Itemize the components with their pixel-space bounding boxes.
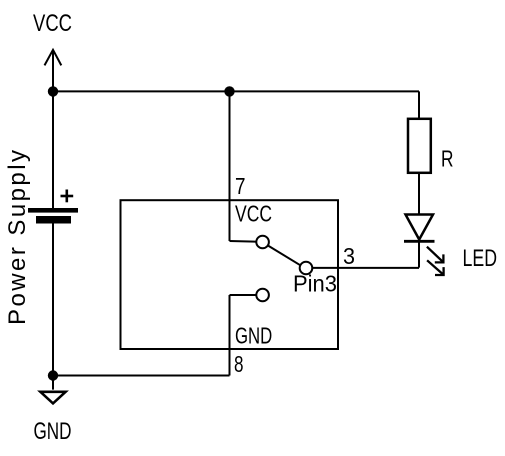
switch contact circle (Pin3 pole) [300, 262, 313, 275]
svg-text:R: R [441, 146, 454, 172]
wire to switch VCC pole [230, 240, 257, 243]
IC U1 box [121, 200, 339, 349]
wire top right corner down to resistor [418, 91, 420, 119]
switch contact circle (GND pole) [256, 289, 269, 302]
resistor R body [408, 119, 431, 173]
battery positive plate [28, 208, 78, 213]
switch blade [268, 246, 300, 266]
ground symbol [40, 392, 65, 404]
wire VCC rail horizontal [53, 90, 419, 92]
LED triangle [406, 215, 434, 240]
junction dot (pin 7 tap) [224, 86, 234, 96]
wire battery bottom lead [52, 224, 54, 390]
LED emission arrow 2 [427, 260, 444, 275]
power VCC arrow [45, 50, 62, 92]
switch contact circle (VCC pole) [256, 236, 269, 249]
svg-text:8: 8 [234, 351, 244, 377]
wire LED to pin3 net [418, 241, 420, 267]
battery + sign [61, 190, 74, 203]
junction dot (battery top) [48, 86, 58, 96]
svg-text:Pin3: Pin3 [293, 270, 337, 296]
svg-text:3: 3 [343, 243, 355, 269]
wire resistor to LED [418, 172, 420, 215]
wire pin 7 vertical [229, 91, 231, 241]
svg-text:LED: LED [463, 245, 498, 272]
wire battery top lead [52, 91, 54, 208]
junction dot (ground rail) [48, 370, 58, 380]
wire ground rail horizontal [53, 375, 230, 377]
LED cathode bar [404, 240, 435, 243]
wire pin 3 to LED [312, 267, 419, 269]
svg-text:VCC: VCC [33, 10, 72, 37]
LED emission arrow 1 [427, 247, 444, 263]
svg-text:VCC: VCC [235, 200, 272, 226]
battery negative plate [36, 216, 71, 224]
wire pin 8 vertical [229, 295, 231, 376]
svg-text:GND: GND [34, 418, 72, 445]
svg-text:7: 7 [235, 173, 246, 199]
svg-text:GND: GND [235, 323, 272, 349]
wire to GND pole [230, 294, 257, 296]
